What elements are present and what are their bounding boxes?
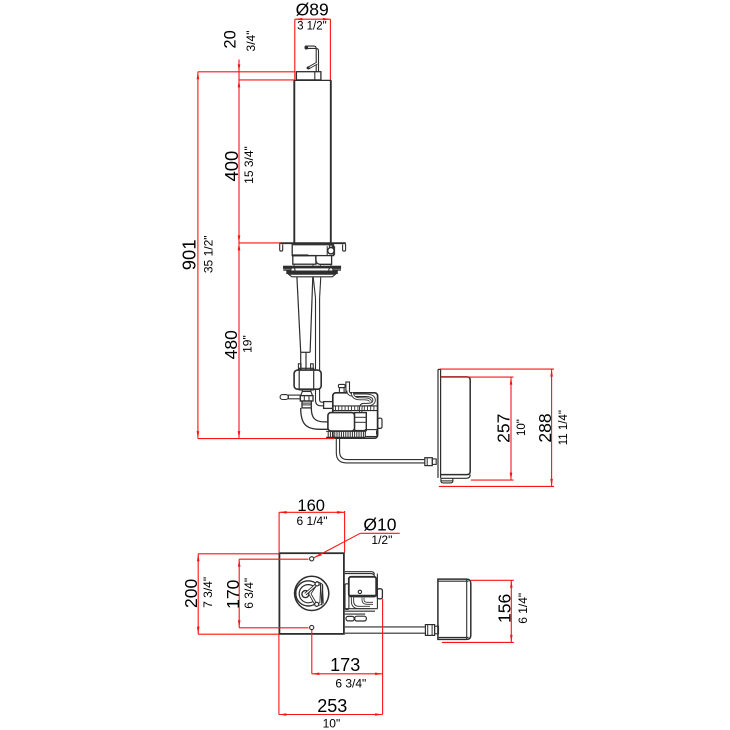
svg-text:901: 901 (178, 239, 199, 270)
mounting bracket (279, 243, 346, 251)
column (294, 80, 331, 243)
rounded pocket (316, 256, 332, 265)
dim 173 (312, 599, 383, 715)
svg-text:156: 156 (495, 594, 515, 623)
pump right edge (376, 574, 378, 609)
valve cylinder (302, 401, 311, 408)
dim 288 (439, 369, 554, 486)
pump lobe left (346, 616, 354, 621)
supply pipe funnel (313, 277, 321, 298)
flange nut left (291, 268, 295, 272)
solenoid valve body (333, 393, 378, 438)
svg-text:257: 257 (494, 414, 514, 443)
flange stud right (331, 269, 342, 270)
svg-text:19": 19" (241, 335, 255, 353)
svg-text:288: 288 (535, 413, 555, 442)
pump left column (345, 584, 349, 610)
svg-text:6 3/4": 6 3/4" (242, 578, 256, 609)
svg-text:480: 480 (221, 330, 241, 359)
svg-text:6 1/4": 6 1/4" (516, 593, 530, 624)
control box body (441, 377, 471, 478)
handle vertex dot bottom (315, 602, 319, 606)
bubbler outlet dot (305, 46, 309, 50)
svg-text:7 3/4": 7 3/4" (201, 577, 215, 608)
flange upper plate (283, 266, 341, 269)
clamp bracket (294, 368, 321, 390)
pump body (349, 577, 376, 597)
flange lower plate (286, 271, 338, 275)
svg-text:15 3/4": 15 3/4" (242, 146, 256, 184)
pump tube U (353, 597, 371, 607)
rosette inner circle (299, 585, 317, 603)
riser tube below cone (301, 352, 306, 369)
svg-text:3 1/2": 3 1/2" (297, 21, 327, 33)
regulator collar (302, 389, 311, 391)
svg-text:6 3/4": 6 3/4" (335, 677, 366, 691)
compression nut side view (425, 458, 436, 466)
handle vertex dot top (315, 582, 319, 586)
drain spigot (280, 395, 300, 400)
top stub (346, 382, 350, 393)
pump plate lines (345, 609, 378, 614)
svg-text:10": 10" (516, 419, 528, 436)
dim 200 (197, 554, 280, 634)
coil sub-box (328, 413, 355, 431)
svg-text:200: 200 (181, 579, 201, 608)
plan compression nut (425, 625, 438, 636)
dim 257 (441, 377, 514, 480)
pump lobe right (355, 616, 367, 621)
valve cartridge (327, 245, 334, 255)
dim Ø10 leader (314, 533, 400, 557)
svg-text:6 1/4": 6 1/4" (297, 514, 328, 528)
svg-text:160: 160 (297, 497, 325, 515)
lower block (293, 256, 316, 265)
svg-text:253: 253 (317, 696, 347, 716)
svg-text:Ø89: Ø89 (296, 0, 329, 20)
svg-text:Ø10: Ø10 (363, 514, 396, 534)
svg-text:170: 170 (223, 579, 243, 608)
flange nut right (329, 268, 333, 272)
svg-text:10": 10" (323, 716, 341, 730)
hatched base (326, 431, 365, 437)
right tab (378, 418, 382, 428)
bubbler spout pipe (305, 46, 318, 72)
pump right tab (377, 589, 382, 599)
vent fitting (338, 384, 345, 392)
control box back plate (438, 369, 441, 478)
dim 20/400/480 line (238, 60, 241, 439)
pedestal cone (297, 277, 313, 353)
bottom right notch (376, 431, 378, 434)
mounting plate (279, 553, 344, 634)
supply pipe (316, 298, 324, 406)
rosette body circle (296, 581, 321, 606)
rosette hub (302, 591, 309, 598)
svg-text:173: 173 (330, 655, 360, 675)
outlet pipe to control box (336, 437, 425, 463)
svg-text:20: 20 (222, 30, 240, 48)
handle spoke (305, 584, 316, 594)
pump tube inner (363, 597, 373, 603)
dim 253 (279, 634, 383, 716)
tube loop A (348, 391, 374, 413)
dim Ø89 line (295, 18, 331, 80)
control box foot (441, 478, 453, 483)
upper body block (292, 245, 333, 256)
elbow (301, 408, 329, 429)
dim 170 (238, 559, 309, 628)
pipe junction block (324, 402, 333, 409)
flange stud left (283, 269, 291, 270)
plan control box (438, 579, 471, 639)
svg-text:1/2": 1/2" (371, 533, 392, 547)
dim 156 (442, 580, 514, 642)
anchor hole bottom (310, 625, 314, 629)
nozzle funnel (301, 392, 313, 396)
dim 901/20/400/480 extension lines (198, 72, 334, 439)
anchor hole top (310, 557, 314, 561)
shoulder (289, 274, 336, 277)
handle bar (320, 583, 323, 606)
spout cap (296, 72, 321, 80)
pump top bar (345, 572, 375, 577)
clamp screws (298, 364, 313, 370)
rosette outer circle (295, 576, 329, 610)
plan pipe to box (345, 627, 426, 633)
handle triangle (310, 583, 322, 606)
dim 901 line (197, 72, 200, 439)
hex nut (300, 396, 313, 401)
svg-text:11 1/4": 11 1/4" (558, 410, 570, 445)
pump body screw (358, 590, 361, 593)
base right block (365, 430, 377, 437)
svg-text:400: 400 (221, 151, 242, 182)
connector stems (294, 264, 331, 265)
coil block (355, 413, 367, 431)
bubbler lever (307, 63, 317, 69)
ribbed band (333, 406, 378, 411)
svg-text:3/4": 3/4" (244, 31, 258, 52)
svg-text:35 1/2": 35 1/2" (202, 235, 216, 273)
tube loop B (353, 393, 371, 402)
dim 160 (279, 511, 345, 553)
